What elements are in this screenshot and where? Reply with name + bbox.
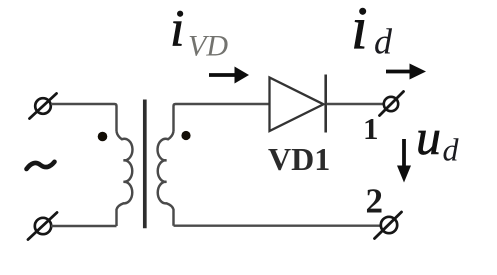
svg-text:u: u — [416, 109, 441, 165]
terminal X1 top-left — [30, 94, 57, 119]
voltage label u_d — [416, 109, 460, 168]
current label i_d — [351, 0, 393, 62]
current label i_VD — [170, 1, 228, 63]
svg-text:2: 2 — [366, 182, 384, 221]
current arrow i_d — [386, 64, 426, 80]
wire secondary bottom: to terminal 2 — [174, 224, 381, 226]
voltage arrow u_d — [397, 139, 411, 183]
svg-text:i: i — [170, 1, 184, 58]
svg-text:VD1: VD1 — [268, 141, 330, 177]
wire: diode cathode to terminal 1 — [327, 103, 384, 105]
secondary winding L2 — [158, 132, 174, 226]
diode VD1 cathode bar — [324, 75, 327, 133]
terminal 2 — [375, 212, 402, 239]
terminal X2 bottom-left — [28, 213, 57, 240]
svg-text:d: d — [443, 132, 460, 168]
transformer core — [143, 100, 147, 229]
diode VD1 triangle — [270, 78, 324, 132]
current arrow i_VD — [209, 67, 249, 84]
wire secondary top: to diode anode — [174, 104, 270, 132]
primary winding L1 — [117, 132, 133, 227]
polarity dot secondary — [181, 131, 190, 140]
svg-text:d: d — [374, 22, 393, 62]
svg-text:VD: VD — [188, 30, 228, 63]
terminal 1 — [380, 92, 404, 116]
wire bottom-left: primary to X2 — [51, 225, 117, 227]
polarity dot primary — [98, 132, 108, 142]
svg-text:i: i — [351, 0, 368, 61]
svg-text:1: 1 — [363, 111, 379, 146]
ac source symbol ~ — [27, 162, 55, 169]
wire top-left: X1 to primary winding — [51, 104, 117, 132]
